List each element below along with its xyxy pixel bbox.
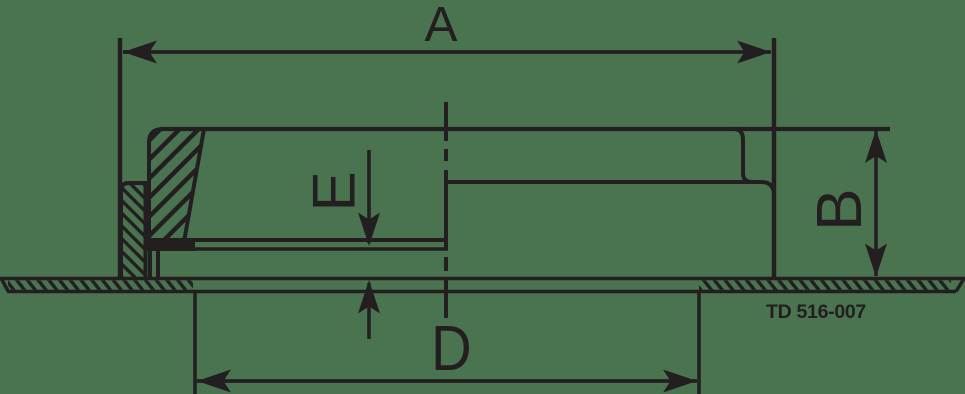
svg-text:B: B — [803, 188, 875, 231]
svg-text:A: A — [425, 0, 458, 52]
svg-text:D: D — [431, 312, 472, 384]
svg-text:TD 516-007: TD 516-007 — [766, 301, 866, 323]
svg-text:E: E — [300, 171, 368, 211]
